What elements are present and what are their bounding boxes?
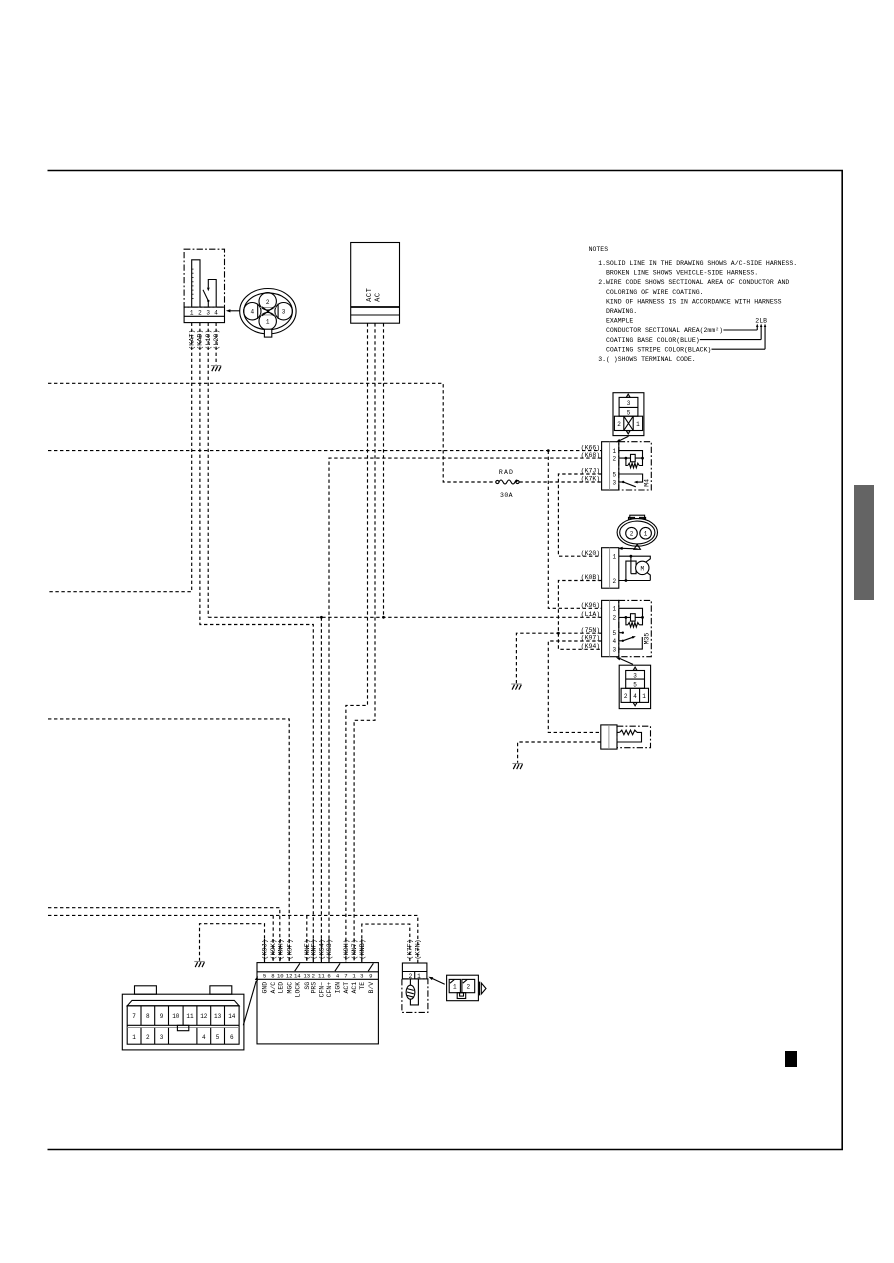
- svg-text:8: 8: [271, 973, 274, 980]
- wire (K97) M35 pin4 down to resistor pin1: [548, 635, 601, 733]
- pressure switch actuation dotted link: [192, 269, 194, 301]
- svg-text:(K97): (K97): [581, 635, 601, 642]
- relay M35 coil with resistor: [619, 608, 644, 627]
- ground at 75N: [511, 684, 521, 690]
- pressure switch contacts pins 1-2: [192, 260, 200, 307]
- svg-text:7: 7: [344, 973, 347, 980]
- relay M4 switch contacts: [619, 474, 643, 487]
- svg-text:(K66): (K66): [581, 444, 601, 451]
- svg-text:(KNF): (KNF): [310, 939, 318, 959]
- svg-text:4: 4: [214, 310, 218, 317]
- svg-text:1: 1: [453, 984, 457, 991]
- svg-text:3: 3: [612, 646, 616, 653]
- noise filter connector strip pins 2 1: [402, 963, 427, 980]
- svg-text:DRAWING.: DRAWING.: [606, 308, 637, 315]
- round 4-pin connector face view: [226, 289, 296, 338]
- svg-text:(75N): (75N): [581, 627, 601, 634]
- svg-text:6: 6: [327, 973, 330, 980]
- svg-text:ACT: ACT: [366, 287, 374, 301]
- wire (K68) M4 pin2 down to ECU pin 6 (KS3): [329, 452, 602, 963]
- svg-text:3: 3: [633, 673, 637, 680]
- ECU pin numbers row: [263, 973, 373, 980]
- svg-text:3: 3: [206, 310, 210, 317]
- wire resistor pin2 to ground: [518, 742, 601, 763]
- ground at resistor: [512, 764, 522, 770]
- svg-text:(L20): (L20): [213, 329, 221, 349]
- noise filter connector face view: [428, 975, 486, 1001]
- svg-text:1: 1: [642, 693, 646, 700]
- svg-text:LOCK: LOCK: [294, 982, 301, 998]
- svg-text:1: 1: [132, 1034, 136, 1041]
- svg-text:(K7J): (K7J): [581, 468, 601, 475]
- svg-text:12: 12: [286, 973, 293, 980]
- ECU signal names: [262, 982, 375, 998]
- svg-text:2LB: 2LB: [755, 318, 767, 325]
- wire branch fuse output down to M35 pin1 (K96): [547, 449, 602, 609]
- svg-text:1: 1: [190, 310, 194, 317]
- svg-text:(K7F): (K7F): [407, 939, 415, 959]
- condenser fan motor M: [619, 555, 651, 582]
- svg-text:4: 4: [202, 1034, 206, 1041]
- svg-text:(L19): (L19): [205, 329, 213, 349]
- svg-text:14: 14: [294, 973, 301, 980]
- bus wire to ECU pin 8, pin 13 and noise filter (K7N): [48, 915, 418, 963]
- dual pressure switch body (dash-dot box): [184, 249, 224, 307]
- ECU wire terminal labels: [262, 939, 367, 959]
- svg-text:NOTES: NOTES: [589, 246, 609, 253]
- svg-text:3: 3: [282, 309, 286, 316]
- relay M35 connector strip pins 1 2 5 4 3: [602, 600, 619, 656]
- motor oval connector face view: [617, 515, 657, 550]
- svg-text:AC: AC: [375, 292, 383, 302]
- svg-text:(KNH): (KNH): [277, 939, 285, 959]
- svg-text:M: M: [640, 565, 644, 572]
- svg-text:2: 2: [617, 421, 621, 428]
- svg-text:2: 2: [612, 578, 616, 585]
- svg-text:10: 10: [172, 1013, 180, 1020]
- wire (KAT) pressure pin1 to left bus: [48, 323, 197, 592]
- svg-text:(K68): (K68): [581, 452, 601, 459]
- pressure switch contacts pins 3-4 with switch blade: [203, 280, 216, 308]
- bus wire to RAD fuse and (K7K) M4 pin3: [48, 383, 602, 482]
- pressure switch connector strip pins 1 2 3 4: [184, 307, 224, 323]
- svg-text:3: 3: [627, 400, 631, 407]
- ECU wire stubs above strip: [265, 939, 362, 963]
- svg-text:KIND OF HARNESS IS IN ACCORDAN: KIND OF HARNESS IS IN ACCORDANCE WITH HA…: [606, 298, 782, 305]
- svg-text:1: 1: [612, 554, 616, 561]
- svg-text:11: 11: [186, 1013, 194, 1020]
- fuse RAD 30A: [496, 469, 519, 499]
- svg-text:2: 2: [466, 984, 470, 991]
- relay M4 connector strip pins 1 2 5 3: [602, 442, 619, 490]
- svg-text:CONDUCTOR SECTIONAL AREA(2mm²): CONDUCTOR SECTIONAL AREA(2mm²): [606, 327, 723, 334]
- svg-text:CFN−: CFN−: [319, 982, 326, 998]
- wire ACT-3 joins (L1A) line: [383, 323, 385, 617]
- svg-text:11: 11: [318, 973, 325, 980]
- svg-text:(K7N): (K7N): [415, 939, 423, 959]
- svg-text:12: 12: [200, 1013, 208, 1020]
- svg-text:(L1A): (L1A): [581, 611, 601, 618]
- svg-text:AC1: AC1: [351, 982, 358, 994]
- svg-text:RAD: RAD: [499, 469, 514, 476]
- svg-text:2: 2: [146, 1034, 150, 1041]
- condenser fan resistor body: [617, 726, 651, 748]
- svg-text:B/V: B/V: [368, 982, 375, 994]
- svg-text:3: 3: [160, 1034, 164, 1041]
- svg-text:8: 8: [146, 1013, 150, 1020]
- svg-text:1: 1: [644, 531, 648, 538]
- wire (L19) pressure pin3 to (L1A) line: [205, 323, 213, 618]
- svg-text:(K96): (K96): [581, 602, 601, 609]
- wire (75N) M35 pin5 to ground: [516, 627, 601, 683]
- svg-text:5: 5: [216, 1034, 220, 1041]
- svg-text:A/C: A/C: [270, 982, 277, 994]
- svg-text:5: 5: [627, 409, 631, 416]
- svg-text:(K94): (K94): [581, 643, 601, 650]
- svg-text:(K20): (K20): [581, 550, 601, 557]
- bus wire to ECU pin 12 (K9F): [48, 719, 289, 963]
- svg-text:COATING STRIPE COLOR(BLACK): COATING STRIPE COLOR(BLACK): [606, 346, 711, 353]
- svg-text:(K9J): (K9J): [262, 939, 270, 959]
- svg-text:2: 2: [266, 299, 270, 306]
- svg-text:TE: TE: [359, 982, 366, 990]
- wire ECU pin 3 (KNB) to noise filter (K7F): [362, 924, 410, 963]
- relay M35 connector face view: [616, 657, 651, 708]
- svg-text:2: 2: [312, 973, 315, 980]
- svg-text:14: 14: [228, 1013, 236, 1020]
- svg-text:2.WIRE CODE SHOWS SECTIONAL AR: 2.WIRE CODE SHOWS SECTIONAL AREA OF COND…: [598, 279, 789, 286]
- svg-text:BROKEN LINE SHOWS VEHICLE-SIDE: BROKEN LINE SHOWS VEHICLE-SIDE HARNESS.: [606, 270, 758, 277]
- relay M35 switch contacts: [619, 632, 643, 650]
- svg-text:4: 4: [250, 309, 254, 316]
- svg-text:4: 4: [612, 638, 616, 645]
- svg-text:7: 7: [132, 1013, 136, 1020]
- svg-text:13: 13: [214, 1013, 222, 1020]
- A/C ECU box: [257, 963, 378, 1044]
- svg-text:LED: LED: [277, 982, 284, 994]
- wire (K7J) M4 pin5 down to condenser fan pin1 (K20): [558, 468, 601, 557]
- svg-text:3.( )SHOWS TERMINAL CODE.: 3.( )SHOWS TERMINAL CODE.: [598, 356, 696, 363]
- relay M4 body: [619, 442, 652, 490]
- wire ACT-1 to ECU pin 7 (K9H): [346, 323, 368, 962]
- wire (KAD) pressure pin2 down to ECU pin 2 (KNF): [197, 323, 314, 963]
- svg-text:(KAT): (KAT): [189, 329, 197, 349]
- svg-text:5: 5: [612, 471, 616, 478]
- svg-text:CFN+: CFN+: [326, 982, 333, 998]
- resistor connector strip: [601, 725, 617, 749]
- svg-text:(KS3): (KS3): [326, 939, 334, 959]
- svg-text:2: 2: [624, 693, 628, 700]
- ECU 14-pin connector face view: [122, 976, 258, 1050]
- svg-text:9: 9: [369, 973, 372, 980]
- relay M4 connector face view: [613, 393, 644, 443]
- svg-text:3: 3: [612, 479, 616, 486]
- svg-text:(K0B): (K0B): [581, 574, 601, 581]
- svg-text:MGC: MGC: [286, 982, 293, 994]
- svg-text:COLORING OF WIRE COATING.: COLORING OF WIRE COATING.: [606, 289, 704, 296]
- ACT A/C amplifier box: [351, 243, 400, 324]
- example wire code 2LB with leader lines: [700, 318, 767, 350]
- svg-text:2: 2: [198, 310, 202, 317]
- svg-text:(KNB): (KNB): [359, 939, 367, 959]
- svg-text:1.SOLID LINE IN THE DRAWING SH: 1.SOLID LINE IN THE DRAWING SHOWS A/C-SI…: [598, 260, 797, 267]
- wire (L20) pressure pin4 to ground: [213, 323, 221, 365]
- svg-text:ACT: ACT: [343, 982, 350, 994]
- svg-text:(K9F): (K9F): [286, 939, 294, 959]
- wire (K66) left bus to M4 pin1: [48, 444, 602, 451]
- svg-text:IGN: IGN: [335, 982, 342, 994]
- ECU no-connect slashes: [295, 963, 374, 971]
- svg-text:EXAMPLE: EXAMPLE: [606, 318, 633, 325]
- bus wire to ECU pin 10 (KNH): [48, 908, 280, 963]
- svg-text:9: 9: [160, 1013, 164, 1020]
- svg-text:6: 6: [230, 1034, 234, 1041]
- svg-text:2: 2: [612, 455, 616, 462]
- svg-text:PRS: PRS: [310, 982, 317, 994]
- wire ECU pin 5 (K9J) to ground: [200, 924, 265, 963]
- wire ACT-2 to ECU pin 1 (KN7): [354, 323, 375, 962]
- svg-text:10: 10: [277, 973, 284, 980]
- svg-text:GND: GND: [262, 982, 269, 994]
- svg-text:2: 2: [630, 531, 634, 538]
- svg-text:5: 5: [633, 681, 637, 688]
- svg-text:(K7K): (K7K): [581, 476, 601, 483]
- svg-text:5: 5: [612, 630, 616, 637]
- svg-text:1: 1: [612, 448, 616, 455]
- svg-text:30A: 30A: [500, 492, 513, 499]
- ground at pressure switch: [211, 366, 221, 372]
- svg-text:COATING BASE COLOR(BLUE): COATING BASE COLOR(BLUE): [606, 337, 700, 344]
- notes text block: [589, 246, 798, 363]
- wire (L1A) L19 line to M35 pin2 with branch to ECU pin 11 (KS4): [208, 611, 601, 963]
- svg-text:(KAD): (KAD): [197, 329, 205, 349]
- svg-text:M35: M35: [644, 633, 651, 645]
- svg-text:13: 13: [303, 973, 310, 980]
- wire (K0B) condenser fan pin2 down to M35 pin3 (K94): [558, 574, 601, 650]
- svg-text:5: 5: [263, 973, 266, 980]
- svg-text:2: 2: [612, 615, 616, 622]
- relay M35 body: [619, 600, 652, 656]
- relay M4 coil with resistor: [619, 451, 644, 468]
- svg-text:4: 4: [633, 693, 637, 700]
- svg-text:M4: M4: [644, 479, 651, 487]
- noise filter wire labels: [407, 939, 423, 959]
- svg-text:1: 1: [266, 319, 270, 326]
- svg-text:3: 3: [360, 973, 363, 980]
- condenser fan motor connector strip pins 1 2: [602, 548, 619, 589]
- svg-text:1: 1: [612, 606, 616, 613]
- svg-text:(K9H): (K9H): [343, 939, 351, 959]
- noise filter coil body: [402, 979, 428, 1013]
- svg-text:1: 1: [636, 421, 640, 428]
- ground at ECU: [194, 962, 204, 968]
